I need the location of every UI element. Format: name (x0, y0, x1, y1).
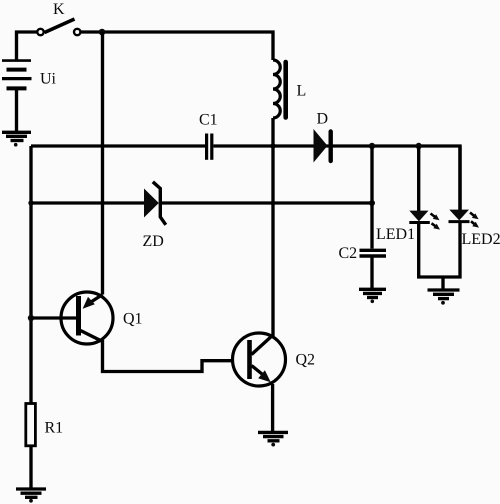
svg-text:C1: C1 (199, 112, 218, 129)
battery Ui top terminal wire (17, 32, 38, 60)
wire main rail y=146 left segment (31, 144, 205, 147)
wire vertical x=102 to Q1 emitter (101, 32, 104, 295)
ground (left rail) (16, 489, 46, 503)
resistor R1 body (26, 404, 36, 446)
svg-text:R1: R1 (45, 420, 64, 437)
svg-text:LED2: LED2 (462, 231, 500, 248)
LED1 light arrow 2 (432, 223, 441, 229)
wire left rail x=31 down (29, 146, 32, 404)
svg-text:Ui: Ui (40, 71, 57, 88)
svg-text:D: D (317, 111, 329, 128)
battery Ui plate 1 (long) (2, 59, 31, 62)
wire LED rail to ground stem (441, 277, 444, 289)
switch K lever (45, 19, 75, 33)
wire R1 to ground (29, 446, 32, 488)
svg-text:LED1: LED1 (376, 226, 415, 243)
LED1 light arrow 1 (431, 214, 440, 221)
svg-text:L: L (297, 83, 307, 100)
LED2 cathode bar (449, 220, 470, 223)
wire zener rail y=203 left segment (31, 201, 144, 204)
capacitor C2 plate top (360, 249, 387, 252)
node junction (273,146) (270, 143, 275, 148)
inductor L coil (273, 60, 280, 118)
svg-text:Q2: Q2 (296, 352, 316, 369)
zener ZD bar with bent ends (153, 182, 166, 225)
inductor L core bar (283, 62, 288, 118)
capacitor C2 plate bottom (360, 254, 387, 257)
wire C2 to ground (370, 256, 373, 289)
transistor Q2 emitter arrow (258, 370, 271, 382)
svg-text:C2: C2 (339, 245, 358, 262)
wire C2 branch upper (370, 146, 373, 249)
ground (Q2) (258, 432, 288, 446)
node junction (31,318) (28, 315, 34, 321)
LED2 light arrow 2 (471, 221, 479, 227)
transistor Q2 base bar (247, 340, 252, 379)
wire Q2 emitter to ground (271, 384, 274, 432)
ground (LED rail) (428, 290, 460, 305)
wire LED2 to bottom rail (458, 223, 461, 279)
wire top rail to inductor (81, 32, 274, 60)
node junction top (102,32) (99, 29, 106, 36)
node junction (372,203) (369, 200, 375, 206)
wire LED2 branch upper (from corner) (458, 146, 461, 210)
LED1 cathode bar (409, 221, 430, 224)
node junction (418.5,146) (416, 143, 422, 149)
LED2 triangle (449, 210, 469, 221)
LED1 triangle (409, 211, 428, 222)
diode D cathode bar (329, 132, 333, 162)
battery Ui plate 4 (short) (7, 86, 27, 90)
transistor Q1 base bar (76, 296, 81, 336)
transistor Q1 emitter lead (91, 295, 103, 303)
switch K left contact (37, 29, 43, 35)
switch K right contact (74, 29, 80, 35)
wire battery negative to ground (15, 90, 18, 132)
transistor Q1 emitter arrow (83, 297, 95, 309)
capacitor C1 plate left (205, 134, 208, 160)
node junction (31,203) (28, 200, 33, 205)
transistor Q1 circle (61, 292, 113, 344)
transistor Q2 collector lead (252, 335, 274, 355)
svg-text:K: K (53, 1, 65, 18)
wire LED1 branch upper (417, 146, 420, 211)
diode D triangle (314, 129, 328, 163)
svg-text:ZD: ZD (143, 233, 164, 250)
wire main rail y=146 right segment (214, 146, 461, 211)
transistor Q1 collector lead (81, 331, 102, 342)
battery Ui plate 2 (short) (7, 68, 27, 72)
transistor Q2 emitter lead (252, 366, 263, 375)
wire zener rail y=203 right segment (162, 201, 373, 204)
transistor Q2 circle (233, 333, 286, 386)
capacitor C1 plate right (210, 134, 213, 160)
wire LED1 to bottom rail (417, 224, 420, 279)
ground (battery) (2, 132, 31, 146)
zener ZD triangle (144, 189, 159, 218)
node junction (372,146) (369, 143, 375, 149)
wire inductor bottom to Q2 collector (271, 118, 274, 336)
wire Q1 base (31, 316, 76, 319)
battery Ui plate 3 (long) (2, 77, 32, 80)
wire Q1 collector to Q2 base (103, 340, 248, 372)
LED2 light arrow 1 (470, 213, 479, 220)
ground (C2) (359, 289, 386, 303)
svg-text:Q1: Q1 (123, 311, 143, 328)
wire LED bottom rail (417, 275, 461, 278)
